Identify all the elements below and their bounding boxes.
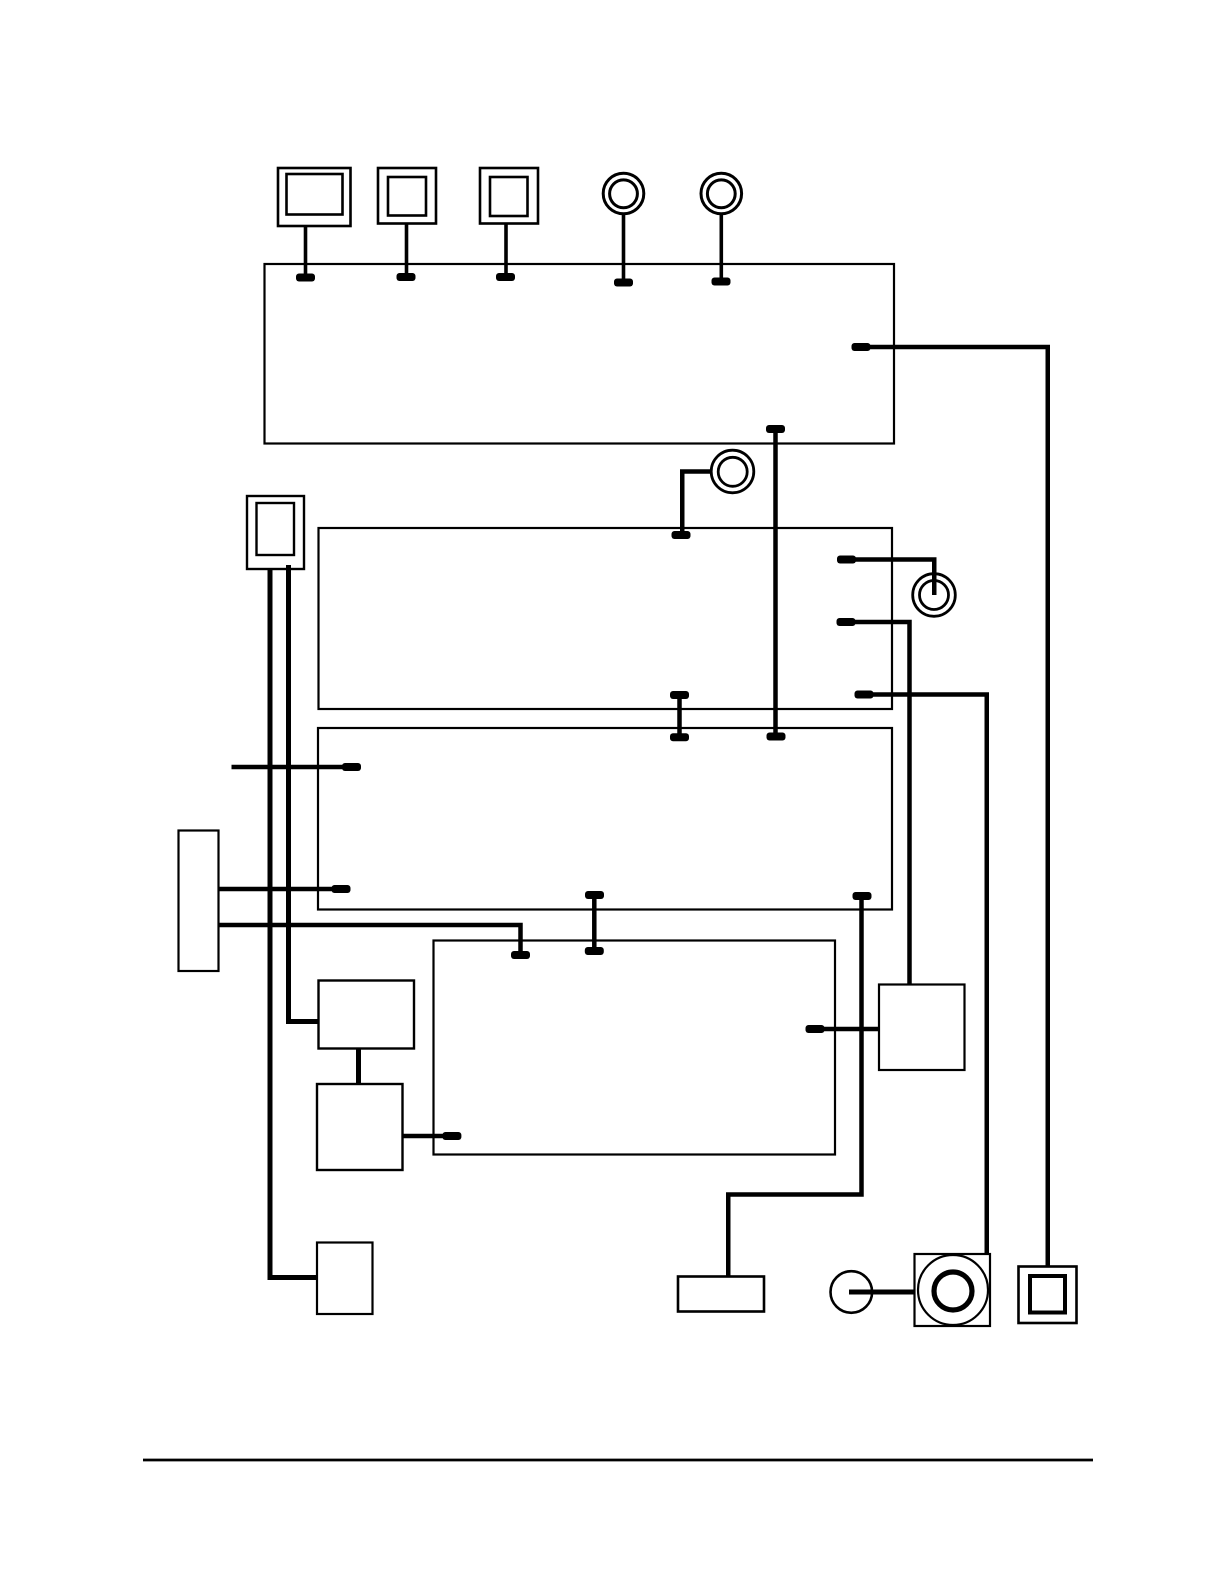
connector ring P2	[701, 173, 742, 285]
wire W4 B2-B3 connector	[670, 691, 689, 741]
tall narrow box	[179, 831, 219, 972]
unit box B2	[319, 528, 893, 709]
wire W5 B2 to ring	[837, 556, 934, 596]
footer rule	[143, 1459, 1093, 1462]
main unit box B1	[265, 264, 895, 444]
wide low box bottom	[678, 1277, 764, 1312]
wire W7 B2 to speaker square	[855, 691, 987, 1255]
speaker square with rings	[915, 1254, 991, 1326]
wire W1 long right	[852, 343, 1048, 1266]
ring right of B2	[913, 574, 956, 617]
wire W17 B4 to square box	[806, 1025, 880, 1033]
ring below B1	[711, 450, 754, 493]
wire W3 ring to B2 top	[672, 472, 713, 540]
small box bottom left	[317, 1243, 373, 1315]
wire W10 free line into B3	[232, 763, 362, 771]
unit box B3	[318, 728, 892, 910]
connector ring P1	[603, 173, 644, 286]
remote sensor box (double)	[247, 496, 304, 569]
wire W8 B3 bottom to wide box	[728, 892, 871, 1277]
wire W11 tall box to B3	[219, 885, 351, 893]
box A	[319, 981, 415, 1049]
unit box B4	[434, 941, 836, 1155]
square box right mid	[879, 985, 965, 1071]
wire W9 B3-B4 connector	[585, 891, 604, 955]
wire W12 tall box to B4	[219, 925, 531, 959]
small circle bottom	[831, 1271, 873, 1313]
box B	[317, 1084, 403, 1170]
monitor M3	[480, 168, 538, 281]
monitor M1	[278, 168, 351, 282]
double square bottom right	[1019, 1267, 1077, 1324]
wire W14 sensor drop to box A	[289, 565, 319, 1022]
wire W6 B2 to square box	[837, 618, 910, 985]
wire W2 vertical through B2	[766, 425, 786, 741]
wire W13 sensor drop to bottom box	[270, 569, 317, 1278]
wire W16 box B to B4	[403, 1132, 462, 1140]
wire W18 circle to speaker square	[849, 1290, 915, 1295]
monitor M2	[378, 168, 436, 281]
wire W15 A-B connector	[356, 1049, 361, 1084]
